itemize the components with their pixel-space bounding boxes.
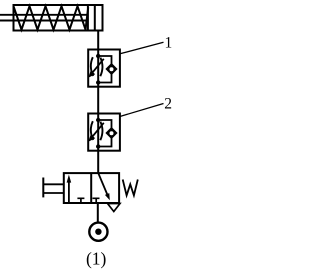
node junction dot bottom (valve 1)	[96, 80, 100, 84]
blocked port T (left cell)	[77, 198, 84, 203]
spring return W (right side)	[123, 180, 138, 196]
spring (return spring zigzag inside cylinder)	[14, 6, 89, 29]
check valve ball (valve 2)	[109, 130, 115, 136]
flow diagonal arrow right cell (to exhaust)	[99, 174, 108, 195]
wire cylinder port to valve 1	[97, 31, 99, 51]
push button actuator (left side)	[42, 178, 44, 198]
node junction dot bottom (valve 2)	[96, 144, 100, 148]
node junction dot top (valve 2)	[96, 118, 100, 122]
check valve diamond (valve 1)	[107, 64, 117, 74]
flow control valve 1 (one-way throttle) box	[88, 50, 120, 87]
wire directional valve to source	[97, 203, 99, 223]
throttle arcs (valve 2)	[91, 121, 93, 140]
piston line 2	[94, 5, 96, 31]
piston line 1	[87, 5, 89, 31]
svg-text:(1): (1)	[86, 248, 107, 268]
svg-text:2: 2	[164, 96, 172, 113]
check valve branch wire (valve 1)	[98, 56, 111, 83]
wire main line through valve 1	[97, 50, 99, 87]
leader line to label 1	[120, 42, 164, 54]
pressure source circle	[89, 223, 107, 241]
throttle adjust arrow (valve 2)	[91, 123, 104, 139]
flow arrow left cell (pass through, up)	[68, 181, 70, 204]
flow control valve 2 (one-way throttle) box	[88, 114, 120, 151]
cylinder body (single-acting, spring return)	[14, 5, 103, 31]
wire valve 1 to valve 2	[97, 87, 99, 115]
exhaust triangle	[108, 204, 121, 212]
leader line to label 2	[120, 104, 164, 117]
throttle arcs (valve 1)	[91, 57, 93, 76]
node junction dot top (valve 1)	[96, 54, 100, 58]
directional control valve U1 (3/2 way) body	[64, 173, 119, 203]
wire valve 2 to directional valve	[97, 151, 99, 174]
valve position divider	[90, 173, 92, 203]
pressure source center dot	[95, 229, 101, 235]
svg-text:1: 1	[165, 35, 173, 52]
check valve diamond (valve 2)	[107, 128, 117, 138]
blocked port T (right cell)	[93, 198, 100, 203]
throttle adjust arrow (valve 1)	[91, 59, 104, 75]
check valve ball (valve 1)	[109, 66, 115, 72]
check valve branch wire (valve 2)	[98, 120, 111, 147]
piston rod (two lines to left edge)	[0, 14, 88, 16]
wire main line through valve 2	[97, 114, 99, 151]
